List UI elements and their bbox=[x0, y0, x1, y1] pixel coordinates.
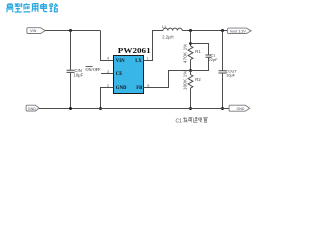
label ON/OFF enable bbox=[86, 66, 102, 72]
wire GND pin to ground rail bbox=[101, 88, 114, 109]
wire VOUT rail bbox=[182, 30, 227, 32]
svg-text:GND: GND bbox=[28, 107, 36, 111]
svg-text:PW2061: PW2061 bbox=[118, 47, 151, 55]
resistor R2 bbox=[188, 71, 193, 109]
型 bbox=[15, 3, 22, 12]
svg-text:R2: R2 bbox=[195, 77, 201, 82]
junction node CIN bottom bbox=[69, 107, 72, 110]
svg-text:10μF: 10μF bbox=[74, 72, 84, 77]
svg-text:4: 4 bbox=[107, 57, 109, 61]
svg-text:ON/OFF: ON/OFF bbox=[86, 67, 102, 72]
value label COUT 10uF bbox=[226, 68, 238, 77]
为 bbox=[183, 117, 187, 121]
junction node R1 top / C1 branch bbox=[189, 42, 192, 45]
wire FB pin to divider bbox=[144, 71, 191, 88]
inductor L1 bbox=[163, 28, 182, 30]
connector tag Vout 3.3V bbox=[228, 28, 252, 33]
junction node GND rail bbox=[99, 107, 102, 110]
capacitor COUT bbox=[219, 31, 227, 109]
junction node COUT top bbox=[221, 29, 224, 32]
电 bbox=[199, 117, 202, 122]
wire LX pin riser bbox=[144, 31, 164, 61]
ground tag GND right bbox=[229, 105, 250, 111]
value label CIN 10uF bbox=[74, 68, 84, 78]
典 bbox=[6, 3, 14, 12]
svg-text:C1: C1 bbox=[176, 118, 183, 124]
wire VIN drop to pin 4 bbox=[101, 31, 114, 61]
svg-text:R1: R1 bbox=[195, 49, 201, 54]
svg-text:2.2μH: 2.2μH bbox=[162, 34, 173, 39]
title 典型应用电路 (hand-drawn glyphs) bbox=[6, 3, 58, 12]
capacitor CIN bbox=[67, 31, 75, 109]
svg-text:22pF: 22pF bbox=[209, 57, 219, 62]
resistor R1 bbox=[188, 31, 193, 71]
junction node FB bbox=[189, 69, 192, 72]
wire ground rail bbox=[39, 108, 229, 110]
ground tag GND left bbox=[26, 105, 39, 111]
svg-text:GND: GND bbox=[237, 107, 245, 111]
wire CE stub bbox=[101, 73, 114, 75]
wire VIN rail (tag to corner) bbox=[45, 30, 101, 32]
svg-text:LX: LX bbox=[135, 59, 142, 64]
应 bbox=[23, 3, 30, 12]
svg-text:Vout 3.3V: Vout 3.3V bbox=[230, 29, 247, 33]
caption C1为可选电容 (hand-drawn CJK) bbox=[176, 117, 208, 124]
svg-text:FB: FB bbox=[136, 86, 143, 91]
svg-text:470K 1%: 470K 1% bbox=[182, 43, 187, 63]
可 bbox=[188, 118, 192, 123]
junction node COUT bottom bbox=[221, 107, 224, 110]
svg-text:GND: GND bbox=[116, 86, 127, 91]
路 bbox=[50, 3, 58, 11]
junction node R2 bottom bbox=[189, 107, 192, 110]
connector tag VIN (net VIN input) bbox=[27, 28, 45, 34]
用 bbox=[32, 4, 38, 12]
op-amp U1 PW2061 IC body bbox=[114, 56, 144, 94]
选 bbox=[193, 117, 197, 122]
svg-text:10μF: 10μF bbox=[226, 73, 236, 78]
电 bbox=[41, 3, 47, 12]
svg-text:CE: CE bbox=[116, 72, 123, 77]
svg-text:VIN: VIN bbox=[116, 59, 125, 64]
svg-text:VIN: VIN bbox=[30, 29, 37, 33]
junction node R1 top bbox=[189, 29, 192, 32]
svg-text:100K 1%: 100K 1% bbox=[182, 70, 187, 90]
junction node CIN top bbox=[69, 29, 72, 32]
capacitor C1 (feed-forward) bbox=[191, 44, 212, 71]
svg-text:L1: L1 bbox=[162, 24, 167, 29]
容 bbox=[203, 117, 207, 122]
